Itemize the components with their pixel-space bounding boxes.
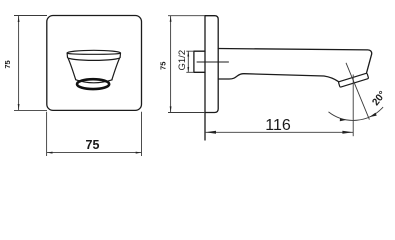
arrow angle right [369,113,377,118]
spout outlet ring [77,79,109,89]
arrow bottom75 left [47,152,53,154]
spout rim inner chord [67,52,120,55]
dim G12 line [187,51,189,72]
spout rim top ellipse arc [67,50,120,53]
dim left 75 ticks [14,16,47,111]
dim 116 line [205,131,353,133]
spout body bottom edge [76,80,112,83]
spout rim lower edge [68,57,121,60]
wall plate side view [205,16,218,113]
spout bottom edge [218,74,338,82]
svg-text:G1/2: G1/2 [177,50,188,71]
arrow right75 bottom [170,106,172,112]
angle arc [329,107,384,120]
arrow left75 bottom [18,104,20,110]
pipe centerline [197,61,229,63]
dim left 75 line [18,16,20,111]
arrow right75 top [170,16,172,22]
svg-text:20°: 20° [370,89,388,108]
arrow left75 top [18,16,20,22]
spout rim left wall [66,53,68,57]
arrow G12 top [187,52,189,57]
arrow angle left [340,118,347,121]
spout body right side [112,58,120,79]
dim right 75 ticks [168,16,205,113]
dim bottom 75 extensions [47,112,142,156]
svg-text:75: 75 [3,60,12,68]
dim G12 ticks [186,51,194,72]
arrow 116 right [342,131,353,134]
outlet flange [338,73,368,87]
spout top edge and tip face [218,49,372,73]
wall plate back edge [204,16,206,140]
outlet axis 20 deg line [346,63,369,120]
arrow G12 bottom [187,67,189,72]
spout body left side [68,58,76,79]
svg-text:75: 75 [159,62,168,70]
G1/2 inlet pipe [194,51,205,72]
outlet center extension line [352,75,354,137]
arrow bottom75 right [136,152,142,154]
wall plate front view [47,16,142,111]
arrow 116 left [205,131,216,134]
svg-text:75: 75 [86,138,100,152]
dim bottom 75 line [47,152,142,154]
spout rim right wall [119,53,121,57]
svg-text:116: 116 [265,117,291,134]
dim right 75 line [170,16,172,113]
